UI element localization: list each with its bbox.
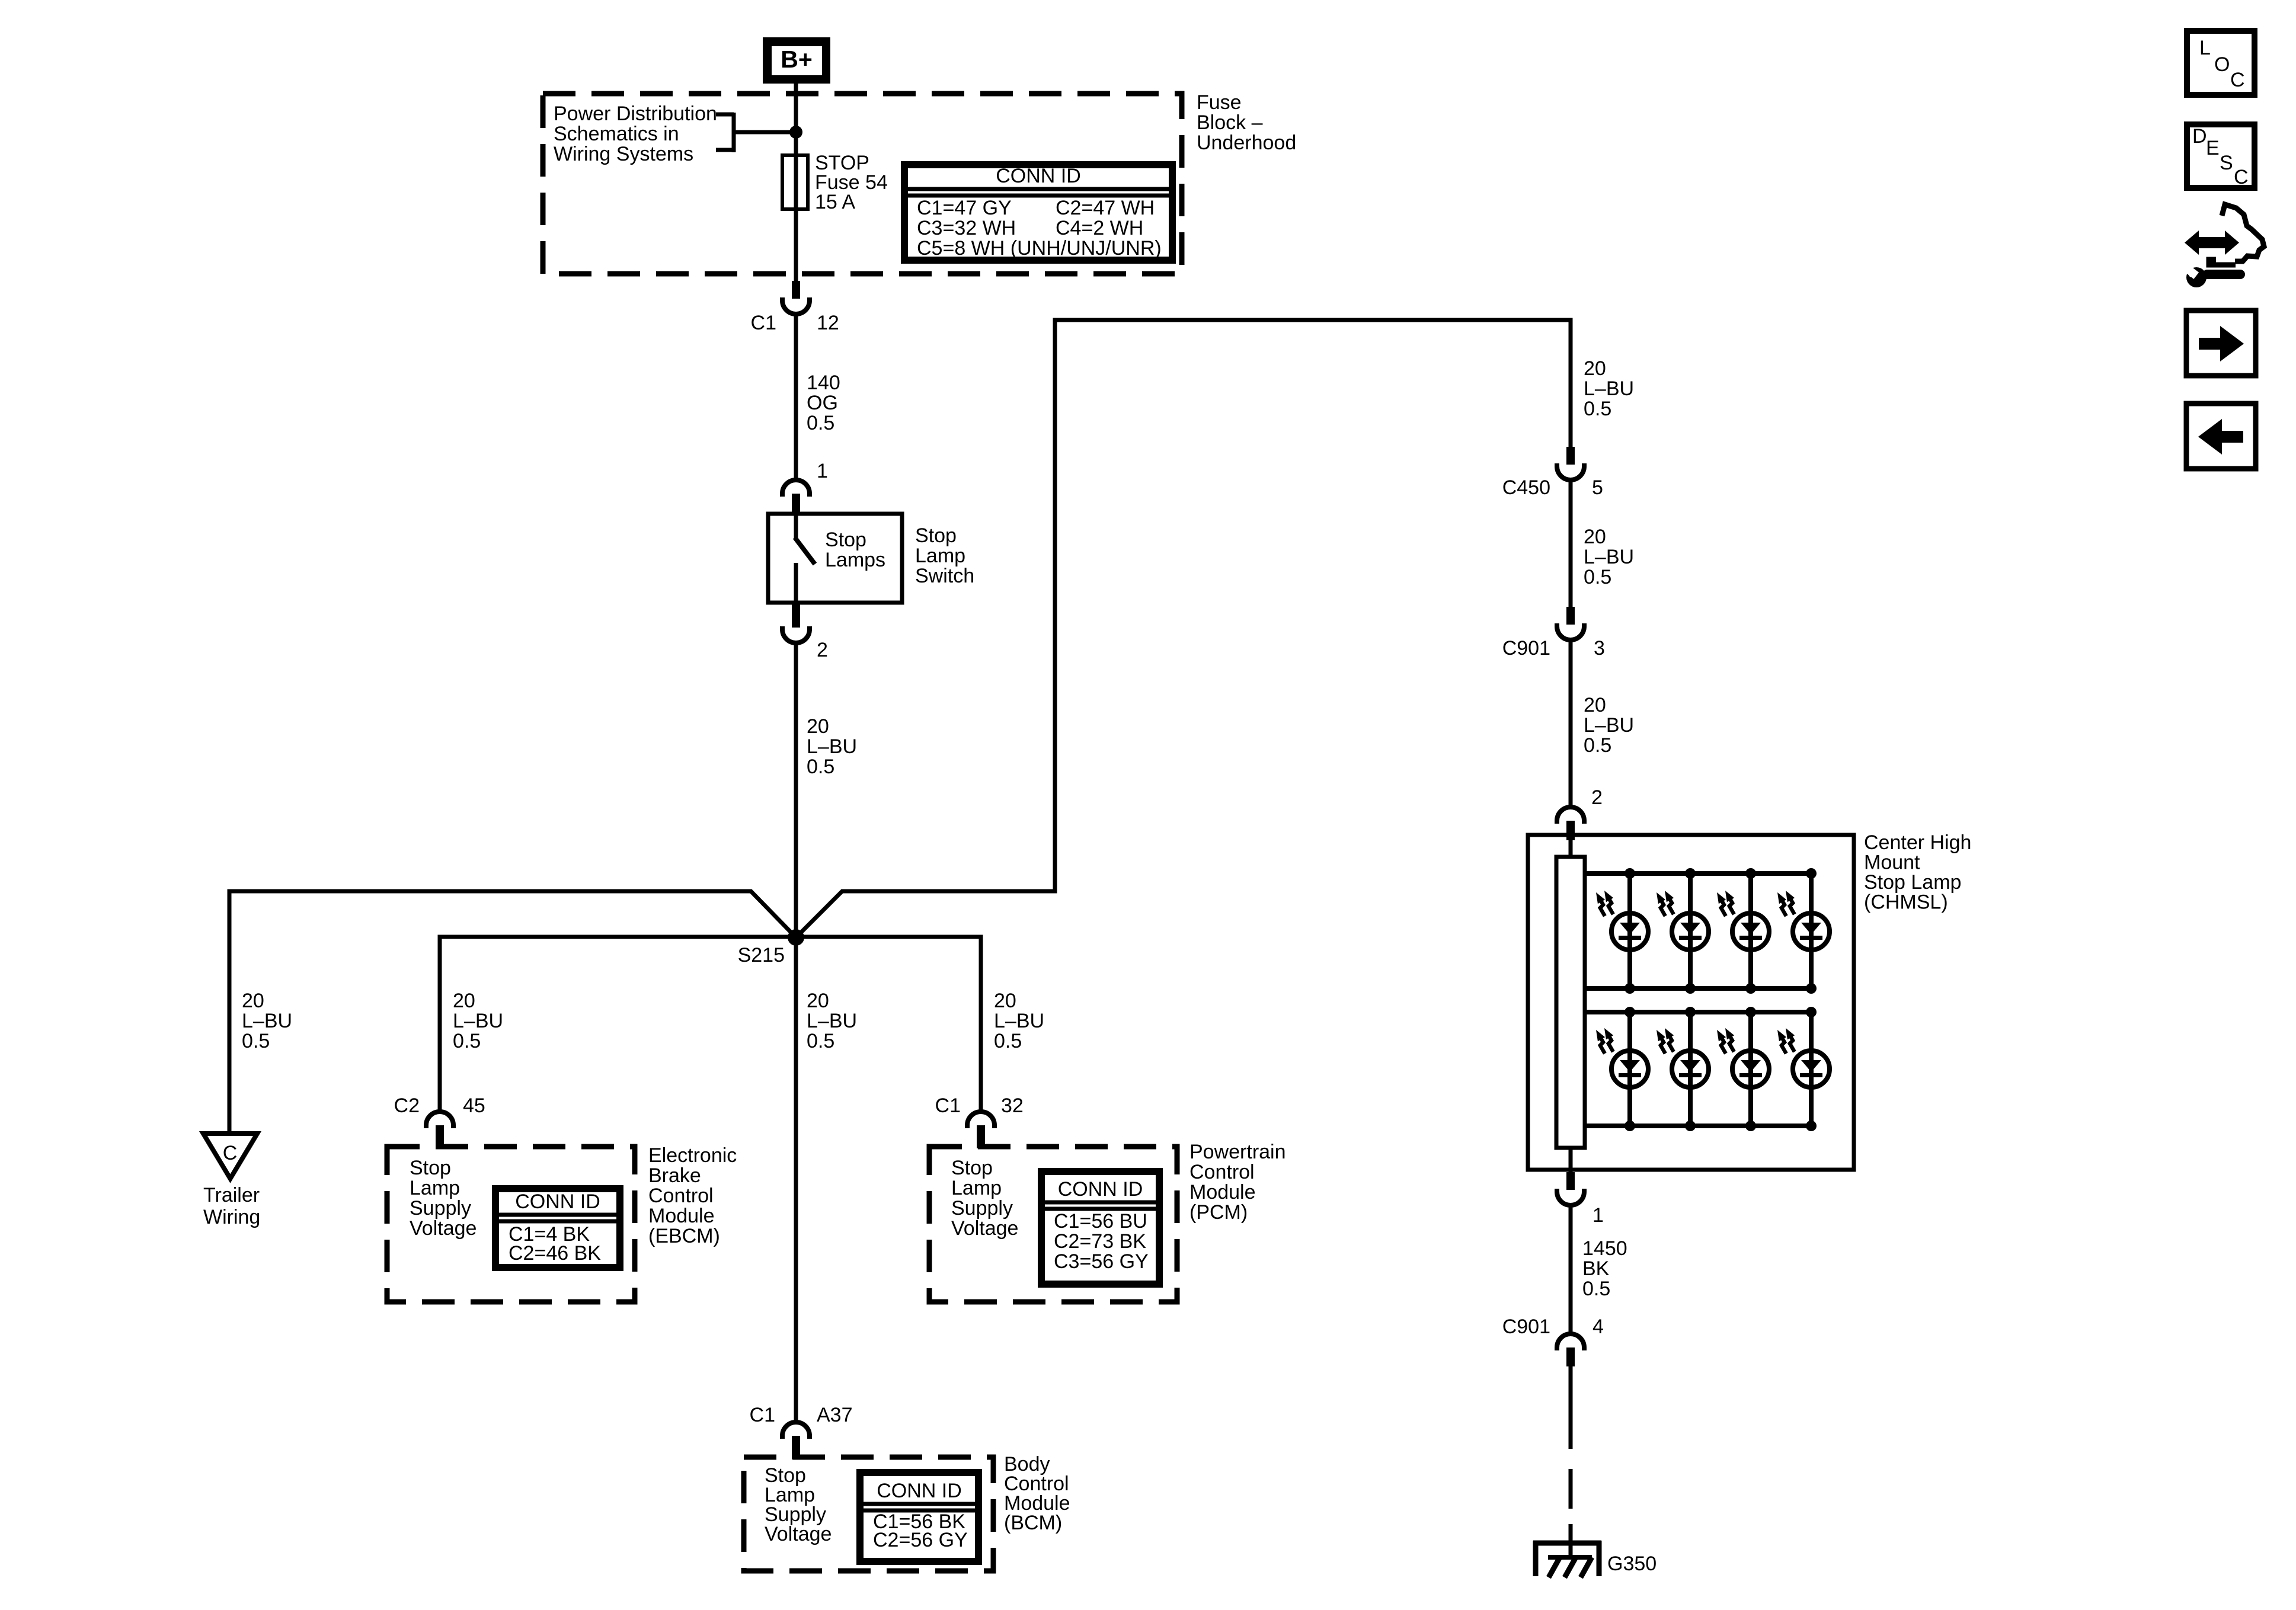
label Fuse Block Underhood	[1197, 91, 1296, 154]
svg-text:45: 45	[463, 1094, 485, 1117]
svg-text:20: 20	[453, 990, 475, 1012]
svg-text:20: 20	[807, 715, 829, 738]
svg-text:C: C	[2234, 166, 2249, 188]
connector pin 1 stop lamp switch	[782, 460, 828, 513]
svg-text:(EBCM): (EBCM)	[648, 1225, 720, 1247]
wire S215 to BCM	[794, 937, 798, 1422]
bracket to power distribution note	[716, 113, 796, 152]
svg-text:20: 20	[1584, 526, 1606, 548]
switch contact lower	[794, 563, 798, 603]
wire fuse to connector C1-12	[794, 209, 798, 281]
connector C450 pin 5	[1502, 447, 1603, 499]
wire S215 to PCM	[796, 937, 981, 1112]
svg-text:20: 20	[807, 990, 829, 1012]
connector C901 pin 4	[1502, 1315, 1604, 1366]
svg-text:C1=56 BU: C1=56 BU	[1054, 1210, 1147, 1233]
CHMSL LED bus row 1 top	[1585, 871, 1811, 876]
svg-text:Switch: Switch	[915, 565, 974, 587]
wire into CHMSL bus bar	[1569, 837, 1573, 859]
svg-text:0.5: 0.5	[453, 1030, 481, 1052]
svg-text:Wiring Systems: Wiring Systems	[554, 143, 693, 165]
svg-text:3: 3	[1594, 637, 1605, 660]
connector C1 pin A37 BCM	[750, 1404, 853, 1459]
svg-text:C1=47 GY: C1=47 GY	[917, 197, 1012, 219]
trailer wiring connector C	[203, 1134, 257, 1179]
svg-text:D: D	[2192, 125, 2207, 148]
svg-text:1: 1	[817, 460, 828, 482]
wire S215 to CHMSL branch riser	[796, 320, 1571, 937]
svg-text:Stop: Stop	[825, 529, 866, 551]
svg-text:Voltage: Voltage	[410, 1217, 477, 1240]
wire C450 to C901	[1569, 480, 1573, 607]
switch blade	[795, 537, 815, 564]
svg-text:Wiring: Wiring	[203, 1206, 260, 1228]
CHMSL LED bus row 2 top	[1585, 1010, 1811, 1014]
wire B+ to fuse	[794, 84, 798, 155]
svg-text:12: 12	[817, 312, 839, 334]
wire 20 L-BU switch to S215	[794, 643, 798, 937]
label Stop Lamp Supply Voltage BCM	[765, 1464, 832, 1545]
label Trailer Wiring	[203, 1184, 260, 1228]
battery feed B+ terminal	[763, 37, 830, 84]
label wire 20 L-BU 0.5	[807, 715, 857, 778]
svg-text:Fuse: Fuse	[1197, 91, 1242, 114]
connector pin 2 CHMSL	[1557, 786, 1603, 840]
svg-text:BK: BK	[1582, 1257, 1610, 1280]
svg-text:0.5: 0.5	[1582, 1278, 1610, 1300]
label wire 20 L-BU 0.5 main branch	[807, 990, 857, 1052]
svg-text:15 A: 15 A	[815, 191, 855, 213]
svg-text:1: 1	[1593, 1204, 1604, 1227]
svg-text:(CHMSL): (CHMSL)	[1864, 891, 1948, 914]
icon part locator with wrench	[2180, 204, 2264, 287]
svg-text:Stop Lamp: Stop Lamp	[1864, 871, 1961, 894]
svg-text:L–BU: L–BU	[1584, 714, 1634, 737]
wire C901 to CHMSL	[1569, 640, 1573, 808]
svg-text:C2=46 BK: C2=46 BK	[509, 1242, 601, 1265]
wire 140 OG 0.5	[794, 313, 798, 480]
svg-text:Lamps: Lamps	[825, 549, 885, 571]
svg-text:C1: C1	[935, 1094, 961, 1117]
svg-text:Brake: Brake	[648, 1164, 701, 1187]
svg-text:L–BU: L–BU	[807, 1010, 857, 1032]
svg-text:32: 32	[1001, 1094, 1024, 1117]
wire bus bar to pin 1	[1569, 1148, 1573, 1172]
svg-text:Module: Module	[648, 1205, 715, 1227]
svg-text:Mount: Mount	[1864, 852, 1920, 874]
LED D6	[1657, 1007, 1709, 1131]
svg-text:O: O	[2214, 53, 2230, 76]
svg-text:C2=56 GY: C2=56 GY	[873, 1529, 968, 1551]
label wire 20 L-BU 0.5 trailer branch	[242, 990, 292, 1052]
svg-text:C3=56 GY: C3=56 GY	[1054, 1250, 1149, 1273]
connector C901 pin 3	[1502, 607, 1605, 660]
svg-text:0.5: 0.5	[1584, 566, 1611, 588]
label Stop Lamps	[825, 529, 885, 571]
svg-text:Supply: Supply	[951, 1197, 1013, 1219]
label fuse STOP Fuse 54 15 A	[815, 152, 888, 213]
wire bracket to B+ node	[734, 130, 796, 135]
svg-text:Module: Module	[1189, 1181, 1256, 1204]
svg-text:20: 20	[242, 990, 264, 1012]
svg-text:CONN ID: CONN ID	[996, 165, 1081, 187]
PCM dashed box	[929, 1147, 1177, 1302]
note Power Distribution Schematics in Wiring Systems	[554, 103, 717, 165]
svg-text:C1: C1	[751, 312, 776, 334]
svg-text:Underhood: Underhood	[1197, 132, 1296, 154]
fuse STOP Fuse 54 15 A	[782, 155, 808, 209]
wire 1450 BK to C901-4	[1569, 1205, 1573, 1334]
svg-text:C3=32 WH: C3=32 WH	[917, 217, 1016, 239]
svg-text:Stop: Stop	[410, 1157, 451, 1179]
LED D8	[1777, 1007, 1830, 1131]
svg-text:0.5: 0.5	[994, 1030, 1022, 1052]
LED D5	[1596, 1007, 1648, 1131]
LED D4	[1777, 868, 1830, 994]
connector pin 2 stop lamp switch	[782, 603, 828, 661]
svg-text:Lamp: Lamp	[951, 1177, 1002, 1199]
wire 1450 BK to ground	[1569, 1366, 1573, 1558]
icon DESC box	[2187, 124, 2255, 188]
CHMSL LED bus row 1 bottom	[1585, 986, 1811, 991]
svg-text:Center High: Center High	[1864, 831, 1971, 854]
svg-text:C4=2 WH: C4=2 WH	[1056, 217, 1143, 239]
svg-text:1450: 1450	[1582, 1237, 1627, 1260]
fuse block underhood dashed box	[543, 94, 1182, 274]
svg-text:E: E	[2206, 137, 2220, 159]
svg-text:20: 20	[1584, 694, 1606, 716]
svg-text:C5=8 WH (UNH/UNJ/UNR): C5=8 WH (UNH/UNJ/UNR)	[917, 237, 1162, 260]
LED D3	[1717, 868, 1769, 994]
svg-text:Block –: Block –	[1197, 111, 1263, 134]
svg-text:C2: C2	[394, 1094, 420, 1117]
CONN ID table BCM	[860, 1473, 978, 1561]
svg-text:(PCM): (PCM)	[1189, 1201, 1248, 1224]
label wire 20 L-BU 0.5 between C450 C901	[1584, 526, 1634, 588]
svg-text:B+: B+	[781, 46, 813, 73]
ground G350	[1533, 1541, 1657, 1577]
BCM dashed box	[744, 1457, 993, 1571]
svg-text:Electronic: Electronic	[648, 1144, 737, 1167]
label wire 20 L-BU 0.5 EBCM branch	[453, 990, 503, 1052]
connector pin 1 CHMSL	[1557, 1172, 1604, 1227]
svg-text:S215: S215	[738, 944, 785, 966]
CHMSL LED bus row 2 bottom	[1585, 1124, 1811, 1128]
svg-text:S: S	[2220, 152, 2233, 174]
svg-text:Schematics in: Schematics in	[554, 123, 679, 145]
svg-text:Trailer: Trailer	[203, 1184, 260, 1206]
svg-text:L–BU: L–BU	[1584, 377, 1634, 400]
label Center High Mount Stop Lamp CHMSL	[1864, 831, 1971, 914]
svg-text:A37: A37	[817, 1404, 853, 1426]
svg-text:G350: G350	[1607, 1553, 1657, 1575]
node junction on B+ feed	[789, 126, 802, 139]
svg-text:20: 20	[994, 990, 1016, 1012]
svg-text:L–BU: L–BU	[994, 1010, 1044, 1032]
svg-text:L–BU: L–BU	[807, 735, 857, 758]
svg-text:CONN ID: CONN ID	[877, 1480, 962, 1502]
svg-text:(BCM): (BCM)	[1004, 1512, 1062, 1534]
label wire 1450 BK 0.5 upper	[1582, 1237, 1627, 1300]
connector C2 pin 45 EBCM	[394, 1094, 485, 1148]
switch contact upper	[794, 514, 798, 539]
svg-text:C: C	[2230, 69, 2245, 91]
svg-text:L–BU: L–BU	[242, 1010, 292, 1032]
svg-text:0.5: 0.5	[807, 412, 834, 434]
connector C1 pin 32 PCM	[935, 1094, 1024, 1148]
CONN ID table PCM	[1041, 1172, 1159, 1284]
svg-text:140: 140	[807, 372, 840, 394]
label wire 20 L-BU 0.5 to CHMSL	[1584, 694, 1634, 757]
label Body Control Module BCM	[1004, 1453, 1070, 1534]
svg-text:20: 20	[1584, 357, 1606, 380]
svg-text:L: L	[2199, 37, 2211, 59]
svg-text:0.5: 0.5	[807, 1030, 834, 1052]
svg-text:2: 2	[1591, 786, 1603, 809]
svg-text:C901: C901	[1502, 1315, 1550, 1338]
CONN ID table fuse block	[904, 165, 1172, 260]
CHMSL common bus bar	[1556, 857, 1585, 1148]
svg-text:CONN ID: CONN ID	[1058, 1178, 1143, 1201]
stop lamp switch box	[768, 514, 902, 603]
svg-text:Powertrain: Powertrain	[1189, 1141, 1286, 1163]
svg-text:Voltage: Voltage	[951, 1217, 1018, 1240]
svg-text:2: 2	[817, 639, 828, 661]
label Stop Lamp Supply Voltage PCM	[951, 1157, 1018, 1240]
label Powertrain Control Module PCM	[1189, 1141, 1286, 1224]
svg-text:0.5: 0.5	[1584, 398, 1611, 420]
svg-text:C2=73 BK: C2=73 BK	[1054, 1230, 1146, 1253]
label Stop Lamp Switch	[915, 524, 974, 587]
svg-text:5: 5	[1592, 476, 1603, 499]
LED D7	[1717, 1007, 1769, 1131]
svg-text:C901: C901	[1502, 637, 1550, 660]
EBCM dashed box	[387, 1147, 635, 1302]
label wire 20 L-BU 0.5 riser upper	[1584, 357, 1634, 420]
svg-text:0.5: 0.5	[807, 756, 834, 778]
icon LOC box	[2187, 31, 2255, 95]
LED D2	[1657, 868, 1709, 994]
svg-text:C: C	[223, 1142, 238, 1164]
label wire 140 OG 0.5	[807, 372, 840, 434]
wire S215 to trailer branch	[229, 891, 796, 1134]
svg-text:Lamp: Lamp	[410, 1177, 460, 1199]
LED D1	[1596, 868, 1648, 994]
label Stop Lamp Supply Voltage EBCM	[410, 1157, 477, 1240]
label Electronic Brake Control Module EBCM	[648, 1144, 737, 1247]
splice S215	[738, 929, 804, 966]
svg-text:C450: C450	[1502, 476, 1550, 499]
svg-text:C1: C1	[750, 1404, 775, 1426]
svg-text:Supply: Supply	[410, 1197, 471, 1219]
svg-text:Control: Control	[1189, 1161, 1255, 1183]
svg-text:OG: OG	[807, 392, 838, 414]
label wire 20 L-BU 0.5 PCM branch	[994, 990, 1044, 1052]
svg-text:C2=47 WH: C2=47 WH	[1056, 197, 1155, 219]
svg-text:Power Distribution: Power Distribution	[554, 103, 717, 125]
svg-text:0.5: 0.5	[242, 1030, 270, 1052]
icon forward arrow box	[2186, 311, 2256, 376]
svg-text:4: 4	[1593, 1315, 1604, 1338]
svg-text:L–BU: L–BU	[1584, 546, 1634, 568]
connector C1 pin 12	[751, 281, 839, 334]
wire S215 to EBCM	[440, 937, 796, 1112]
svg-text:Lamp: Lamp	[915, 545, 965, 567]
svg-text:Stop: Stop	[915, 524, 957, 547]
svg-text:L–BU: L–BU	[453, 1010, 503, 1032]
svg-text:Stop: Stop	[951, 1157, 993, 1179]
CHMSL box	[1528, 835, 1854, 1170]
CONN ID table EBCM	[495, 1189, 620, 1267]
svg-text:Voltage: Voltage	[765, 1523, 832, 1545]
svg-text:CONN ID: CONN ID	[515, 1190, 600, 1213]
svg-text:Control: Control	[648, 1185, 714, 1207]
svg-text:0.5: 0.5	[1584, 734, 1611, 757]
icon back arrow box	[2186, 404, 2256, 469]
